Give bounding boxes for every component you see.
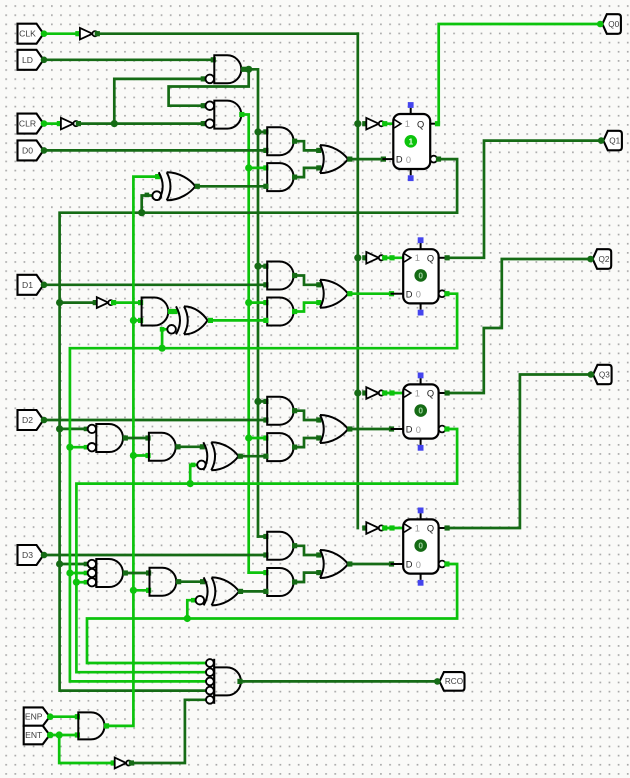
wire bit2 NAND to left AND: [125, 437, 148, 440]
wire elbow to XOR3 inverted input: [187, 600, 193, 618]
and gate G2 output port: [239, 112, 244, 117]
count-AND bit3 output port: [292, 579, 297, 584]
inverter on CLK input port: [75, 31, 80, 36]
wire bit3 left AND to XOR3: [179, 580, 203, 583]
wire T-enable rail: [107, 177, 158, 726]
bit1 left AND lower input port: [138, 318, 143, 323]
wire dark rail to load-AND bit1 input: [258, 265, 266, 268]
wire ENT inverter to RCO AND: [131, 700, 206, 763]
XOR2 elbow wire-end: [191, 463, 196, 468]
wire dark rail to load-AND bit3 input: [258, 535, 266, 538]
FF3 clock inverter input port: [362, 390, 367, 395]
OR bit2 upper input port: [316, 417, 321, 422]
nand gate bit3 body (3-in AND w/ inverted inputs): [95, 560, 97, 587]
wire Q1bar to bit3 NAND input: [70, 572, 87, 575]
and gate RCO body (5-input): [213, 659, 215, 704]
or gate bit1 body: [320, 280, 324, 308]
junction Q2bar to bit3 NAND: [73, 579, 80, 586]
wire count-AND bit0 output jog to OR: [295, 168, 319, 177]
inverter on FF2 clock: [366, 252, 379, 264]
output pin Q2: [593, 249, 612, 269]
count-AND gate bit1 body: [267, 298, 293, 326]
wire bright rail to count-AND bit1 input: [249, 301, 266, 304]
svg-text:0: 0: [416, 290, 421, 300]
OR bit1 lower input port: [316, 300, 321, 305]
wire FF3 notQ net (Q2bar): [76, 429, 457, 672]
xor gate XOR3 body: [204, 577, 208, 605]
load-AND bit1 lower input port: [263, 282, 268, 287]
wire D2 to load-AND bit2: [44, 419, 266, 422]
wire load-AND bit0 output jog to OR: [295, 141, 319, 150]
XNOR0 upper input port: [155, 174, 160, 179]
and gate G1 output port: [241, 67, 246, 72]
svg-text:1: 1: [415, 253, 420, 263]
OR bit2 lower input port: [316, 435, 321, 440]
input pin CLR: [18, 114, 44, 134]
load-AND bit3 output port: [292, 543, 297, 548]
wire load-AND bit2 output jog to OR: [295, 411, 319, 420]
wire bright rail to count-AND bit2 input: [249, 437, 266, 440]
ENT inverter output port: [129, 760, 134, 765]
junction Q0bar to bit2 NAND: [56, 425, 63, 432]
inverter bit1 (makes Q0): [97, 297, 109, 308]
D flip-flop FF4: [403, 519, 438, 573]
enable AND output port: [104, 723, 109, 728]
wire clock inverter to FF1: [385, 122, 394, 125]
wire FF2 Q to pin Q1: [447, 141, 601, 258]
svg-text:1: 1: [408, 136, 413, 146]
load-AND bit1 output port: [292, 273, 297, 278]
svg-text:Q2: Q2: [599, 255, 610, 264]
wire T rail to bit3 left AND: [133, 589, 148, 592]
OR bit3 upper input port: [316, 552, 321, 557]
OR bit1 upper input port: [316, 282, 321, 287]
svg-text:D: D: [406, 289, 413, 299]
gate G2 upper input wire-end: [201, 103, 206, 108]
count-AND bit2 upper input port: [263, 435, 268, 440]
svg-text:Q3: Q3: [599, 370, 610, 379]
FF2 clock wire-end: [389, 255, 394, 260]
FF4 notQ output port: [444, 561, 449, 566]
load-AND bit3 lower input port: [263, 552, 268, 557]
input pin D3: [18, 545, 44, 565]
output pin Q1: [603, 131, 622, 151]
junction Q3bar to XOR3 bubble elbow: [184, 615, 191, 622]
D flip-flop FF3: [403, 384, 438, 438]
bit3 NAND input bubble B: [88, 569, 96, 577]
inverter on CLR input port: [57, 121, 62, 126]
svg-text:1: 1: [415, 523, 420, 533]
svg-text:Q0: Q0: [608, 20, 619, 29]
wire FF1 Q to pin Q0: [439, 24, 601, 124]
bit3 NAND mid wire-end: [84, 571, 89, 576]
wire FF1 notQ net (Q0bar): [60, 159, 458, 691]
wire count-AND bit1 output jog to OR: [295, 303, 319, 312]
input pin LD: [18, 50, 44, 70]
count-AND bit0 output port: [292, 175, 297, 180]
svg-text:D: D: [396, 155, 403, 165]
XOR2 output port: [238, 454, 243, 459]
wire elbow to XOR2 inverted input: [190, 465, 196, 484]
junction bright rail to count-AND bit2: [245, 434, 252, 441]
junction bright rail to count-AND bit0: [245, 164, 252, 171]
wire elbow to XOR1 inverted input: [162, 329, 166, 348]
svg-text:D0: D0: [22, 145, 33, 155]
or gate bit2 output port: [347, 426, 352, 431]
FF2 Q output port: [445, 255, 450, 260]
wire Q1bar to bit2 NAND input: [70, 446, 87, 449]
svg-text:LD: LD: [22, 55, 33, 65]
load-AND gate bit2 body: [267, 397, 293, 425]
junction T rail to bit3 count logic: [130, 587, 137, 594]
output pin RCO: [440, 672, 465, 691]
gate G1 input wire-end: [201, 76, 206, 81]
wire D0 to load-AND bit0: [44, 149, 266, 152]
bit3 NAND input bubble C: [88, 578, 96, 586]
junction Q0bar to bit3 NAND: [56, 560, 63, 567]
load-AND bit2 output port: [292, 408, 297, 413]
svg-text:0: 0: [418, 406, 423, 416]
and gate G2 lower input bubble: [206, 119, 215, 128]
load-AND bit0 lower input port: [263, 148, 268, 153]
enable AND upper input port: [75, 714, 80, 719]
inverter U_CLK output port: [95, 31, 100, 36]
wire clock inverter to FF2: [385, 256, 404, 259]
RCO AND output port: [237, 679, 242, 684]
svg-text:D: D: [406, 560, 413, 570]
count-AND bit1 lower input port: [263, 318, 268, 323]
wire OR bit3 output to FF4 D: [350, 563, 392, 566]
svg-text:0: 0: [416, 425, 421, 435]
FF1 Q output port: [435, 121, 440, 126]
FF1 notQ output port: [436, 157, 441, 162]
and gate G1 lower input bubble: [206, 75, 215, 84]
bit2 left AND lower input port: [145, 453, 150, 458]
bit3 left AND output port: [176, 579, 181, 584]
wire count-AND bit2 output jog to OR: [295, 438, 319, 447]
XNOR0 inverted-input bubble: [152, 191, 161, 200]
svg-text:0: 0: [406, 155, 411, 165]
wire inverted CLR to gate G2 lower input: [78, 122, 203, 125]
wire Q0bar to bit2 NAND input: [60, 428, 87, 431]
wire T rail to bit2 left AND: [133, 454, 148, 457]
or gate bit3 output port: [347, 561, 352, 566]
and gate G2 body: [214, 101, 241, 129]
junction clock rail to FF1 clock: [354, 120, 361, 127]
bit1 left AND output port: [168, 309, 173, 314]
wire OR bit0 output to FF1 D: [350, 158, 384, 161]
D flip-flop FF1: [393, 114, 430, 169]
input pin CLK: [18, 24, 44, 44]
wire Q0bar to bit1 inverter: [60, 301, 96, 304]
bit2 NAND output port: [123, 435, 128, 440]
FF3 clock wire-end: [389, 390, 394, 395]
nand gate bit2 body (AND w/ inverted inputs): [96, 424, 123, 452]
XOR2 inverted-input bubble: [197, 461, 206, 470]
bit2 NAND lower input bubble: [88, 443, 96, 451]
svg-text:Q: Q: [427, 389, 434, 399]
junction Q1bar to bit3 NAND: [66, 569, 73, 576]
OR bit0 upper input port: [316, 148, 321, 153]
wire bit3 NAND to left AND: [125, 572, 148, 575]
wire OR bit1 output to FF2 D: [350, 292, 392, 295]
inverter U_CLR: [61, 118, 74, 130]
inverter U_CLR output port: [76, 121, 81, 126]
FF4 Q output port: [445, 525, 450, 530]
wire RCO AND to pin RCO: [241, 680, 437, 683]
inverter on ENT branch: [115, 758, 127, 769]
load-AND bit0 output port: [292, 139, 297, 144]
and gate bit1 left body: [142, 298, 169, 326]
count-AND bit0 upper input port: [263, 165, 268, 170]
FF3 D input port: [389, 426, 394, 431]
svg-text:CLK: CLK: [19, 29, 36, 39]
wire Q0bar to bit3 NAND input: [60, 563, 87, 566]
bit2 left AND upper input port: [145, 435, 150, 440]
output pin Q0: [602, 14, 621, 34]
junction Q0bar to bit1 inverter: [56, 299, 63, 306]
bit1 inverter input port: [93, 300, 98, 305]
wire ENT to enable AND: [50, 734, 77, 737]
RCO AND input bubble 4: [206, 687, 214, 695]
enable AND lower input port: [75, 732, 80, 737]
wire bright rail to count-AND bit0 input: [249, 167, 266, 170]
wire LD to gate G1: [44, 58, 213, 61]
count-AND bit0 lower input port: [263, 184, 268, 189]
FF3 notQ output port: [444, 426, 449, 431]
junction Q0bar to XNOR0 bubble elbow: [138, 209, 145, 216]
or gate bit2 body: [320, 415, 324, 443]
input pin D0: [18, 140, 44, 160]
svg-text:CLR: CLR: [19, 119, 36, 129]
bit3 left AND upper input port: [146, 570, 151, 575]
XOR2 upper input port: [200, 444, 205, 449]
wire FF3 Q to pin Q2: [447, 259, 590, 393]
OR bit0 lower input port: [316, 165, 321, 170]
wire G2 output to bright rail: [243, 115, 249, 573]
bit2 NAND lower wire-end: [84, 445, 89, 450]
junction G1 output detour to G2: [245, 66, 252, 73]
wire FF4 notQ net (Q3bar): [87, 564, 457, 663]
count-AND bit2 lower input port: [263, 454, 268, 459]
count-AND gate bit3 body: [267, 568, 293, 596]
and gate G1 input port: [211, 57, 216, 62]
and gate bit2 left body: [149, 433, 176, 461]
D flip-flop FF2: [403, 249, 438, 303]
junction clock rail to FF2 clock: [354, 254, 361, 261]
wire bright rail to count-AND bit3 input: [249, 571, 266, 574]
XOR1 upper input port: [172, 309, 177, 314]
wire T rail to bit1 left AND: [133, 319, 140, 322]
svg-text:D2: D2: [22, 415, 33, 425]
svg-text:RCO: RCO: [445, 677, 463, 686]
XOR3 upper input port: [200, 579, 205, 584]
RCO AND input bubble 1: [206, 659, 214, 667]
XOR3 elbow wire-end: [191, 598, 196, 603]
input pin D1: [18, 275, 44, 295]
wire dark rail to load-AND bit0 input: [258, 131, 266, 134]
wire elbow to XNOR0 inverted input: [142, 196, 152, 213]
wire G1 output to dark rail: [244, 69, 258, 536]
svg-text:Q: Q: [417, 119, 424, 129]
XOR1 inverted-input bubble: [167, 325, 176, 334]
FF3 clock inverter output port: [382, 390, 387, 395]
bit3 NAND output port: [123, 570, 128, 575]
svg-text:D: D: [406, 425, 413, 435]
svg-text:D3: D3: [22, 550, 33, 560]
junction dark rail to load-AND bit1: [254, 263, 261, 270]
junction bright rail to count-AND bit1: [245, 299, 252, 306]
bit3 left AND lower input port: [146, 588, 151, 593]
FF4 D input port: [389, 561, 394, 566]
bit3 NAND upper wire-end: [84, 562, 89, 567]
svg-text:ENP: ENP: [25, 712, 43, 722]
wire ENP to enable AND: [50, 715, 77, 718]
svg-text:D1: D1: [22, 280, 33, 290]
bit2 left AND output port: [175, 444, 180, 449]
xor gate XOR2 body: [203, 442, 207, 470]
XOR1 output port: [208, 318, 213, 323]
junction inverted CLR branch up to G1: [111, 120, 118, 127]
junction ENT branch to inverter: [56, 731, 63, 738]
FF1 D input port: [381, 157, 386, 162]
input pin D2: [18, 410, 44, 430]
XOR3 output port: [238, 589, 243, 594]
count-AND gate bit0 body: [267, 163, 293, 191]
count-AND bit3 upper input port: [263, 570, 268, 575]
FF4 clock wire-end: [389, 525, 394, 530]
svg-text:Q: Q: [427, 253, 434, 263]
inverter on FF4 clock: [366, 522, 379, 534]
and gate enable (ENP·ENT) body: [78, 712, 104, 739]
junction dark rail to load-AND bit0: [254, 128, 261, 135]
inverter U_CLK: [80, 28, 93, 40]
wire load-AND bit3 output jog to OR: [295, 546, 319, 555]
wire bit2 left AND to XOR2: [178, 445, 202, 448]
load-AND bit3 upper input port: [263, 534, 268, 539]
FF4 clock inverter input port: [362, 525, 367, 530]
svg-text:0: 0: [418, 541, 423, 551]
or gate bit1 output port: [347, 291, 352, 296]
wire clock rail vertical: [356, 34, 359, 528]
wire bit1 left AND to XOR1: [171, 310, 176, 313]
wire OR bit2 output to FF3 D: [350, 428, 392, 431]
svg-text:1: 1: [415, 388, 420, 398]
FF3 Q output port: [445, 390, 450, 395]
FF1 clock inverter input port: [362, 121, 367, 126]
wire dark rail to load-AND bit2 input: [258, 400, 266, 403]
bit2 NAND upper wire-end: [84, 427, 89, 432]
and gate G1 body: [214, 55, 241, 83]
FF1 clock inverter output port: [382, 121, 387, 126]
bit1 inverter output port: [111, 300, 116, 305]
gate G2 lower input wire-end: [201, 121, 206, 126]
or gate bit0 body: [320, 145, 324, 173]
inverter on FF1 clock: [366, 118, 379, 130]
wire FF2 notQ net (Q1bar): [70, 294, 457, 682]
load-AND gate bit3 body: [267, 532, 293, 560]
FF2 clock inverter output port: [382, 255, 387, 260]
stub FF1 D: [383, 158, 393, 160]
load-AND bit2 upper input port: [263, 399, 268, 404]
XOR3 inverted-input bubble: [196, 596, 205, 605]
junction T rail to bit1 count logic: [130, 317, 137, 324]
RCO AND input bubble 5: [206, 696, 214, 704]
svg-text:Q: Q: [427, 524, 434, 534]
svg-text:Q1: Q1: [609, 136, 620, 145]
wire count-AND bit3 output jog to OR: [295, 573, 319, 582]
FF2 clock inverter input port: [362, 255, 367, 260]
count-AND gate bit2 body: [267, 433, 293, 461]
svg-text:0: 0: [416, 560, 421, 570]
xor gate XOR1 body: [176, 306, 180, 334]
bit3 NAND low wire-end: [84, 580, 89, 585]
wire CLR pin to inverter: [44, 122, 59, 125]
count-AND bit1 output port: [292, 309, 297, 314]
FF2 notQ output port: [444, 291, 449, 296]
bit1 left AND upper input port: [138, 300, 143, 305]
wire D3 to load-AND bit3: [44, 554, 266, 557]
wire clock inverter to FF4: [385, 527, 404, 530]
wire branch up to gate G1 lower input: [114, 79, 203, 124]
FF2 D input port: [389, 291, 394, 296]
wire XOR3 out to count-AND bit3: [241, 590, 266, 593]
wire bit1 inverter to left AND: [114, 301, 141, 304]
wire inverted clock to clock rail corner: [97, 32, 358, 35]
OR bit3 lower input port: [316, 570, 321, 575]
junction Q1bar to bit2 NAND: [66, 444, 73, 451]
wire D1 to load-AND bit1: [44, 283, 266, 286]
count-AND bit3 lower input port: [263, 589, 268, 594]
svg-text:1: 1: [405, 119, 410, 129]
wire FF4 Q to pin Q3: [447, 375, 591, 529]
count-AND bit2 output port: [292, 445, 297, 450]
XNOR0 elbow wire-end: [145, 193, 150, 198]
and gate G2 upper input bubble: [206, 101, 215, 110]
junction Q1bar to XOR1 bubble elbow: [159, 345, 166, 352]
bit3 NAND input bubble A: [88, 560, 96, 568]
svg-text:0: 0: [418, 271, 423, 281]
load-AND bit0 upper input port: [263, 129, 268, 134]
XNOR0 output port: [195, 184, 200, 189]
load-AND gate bit1 body: [267, 262, 293, 290]
input pin ENT: [24, 726, 50, 745]
count-AND bit1 upper input port: [263, 300, 268, 305]
junction clock rail to FF3 clock: [354, 389, 361, 396]
output pin Q3: [593, 365, 612, 384]
stub FF4 D: [392, 563, 404, 565]
or gate bit3 body: [320, 550, 324, 578]
inverter on FF3 clock: [366, 387, 379, 399]
stub FF2 D: [392, 293, 404, 295]
wire XOR1 out to count-AND bit1: [210, 319, 266, 322]
wire ENT branch down to inverter: [59, 735, 113, 763]
load-AND bit1 upper input port: [263, 264, 268, 269]
wire load-AND bit1 output jog to OR: [295, 276, 319, 285]
wire detour G1 output to G2 upper input: [169, 69, 249, 105]
wire clock inverter to FF3: [385, 392, 404, 395]
XOR1 elbow wire-end: [160, 327, 165, 332]
xor gate XNOR0 body: [159, 172, 163, 200]
wire CLK pin to inverter: [44, 32, 78, 35]
input pin ENP: [24, 707, 50, 726]
or gate bit0 output port: [347, 157, 352, 162]
junction T rail to bit2 count logic: [130, 452, 137, 459]
stub FF3 D: [392, 428, 404, 430]
FF4 clock inverter output port: [382, 525, 387, 530]
wire Q2bar to bit3 NAND input: [76, 581, 86, 584]
wire XNOR0 out to count-AND bit0: [197, 185, 266, 188]
